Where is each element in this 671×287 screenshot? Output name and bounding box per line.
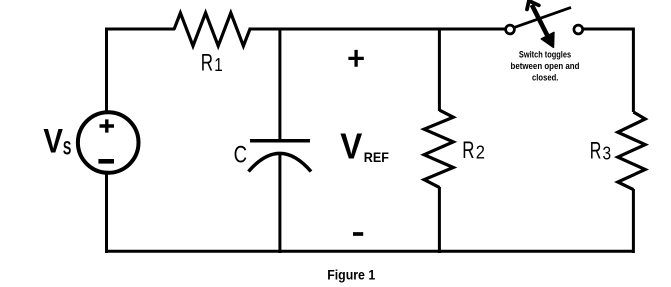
- wire: left vertical from VS negative terminal to bottom rail: [105, 172, 108, 253]
- switch toggle arrow shaft (double-headed): [532, 5, 551, 42]
- svg-text:Figure 1: Figure 1: [327, 266, 375, 282]
- svg-text:between open and: between open and: [511, 61, 580, 71]
- switch annotation text: [511, 50, 580, 83]
- resistor R2: [424, 110, 453, 187]
- label R3: [590, 138, 611, 165]
- VS polarity plus mark: [100, 119, 115, 132]
- svg-text:R: R: [201, 50, 213, 77]
- switch lever blade (open position): [514, 7, 571, 27]
- label R2: [462, 137, 485, 164]
- capacitor C top plate: [250, 139, 310, 143]
- switch right terminal (open circle): [574, 25, 583, 34]
- wire: bottom rail: [105, 250, 633, 253]
- svg-text:S: S: [63, 137, 71, 159]
- label R1: [201, 50, 223, 77]
- switch left terminal (open circle): [506, 25, 515, 34]
- wire: R2 branch upper (junction at top wire down to R2): [438, 29, 441, 111]
- voltage source VS (circle): [78, 112, 139, 173]
- svg-text:V: V: [340, 126, 363, 167]
- VS polarity minus mark: [98, 159, 114, 164]
- label VS: [43, 123, 71, 161]
- wire: top-left horizontal segment from left branch to resistor R1: [105, 28, 175, 31]
- switch toggle arrow head bottom: [541, 32, 554, 47]
- resistor R1: [174, 13, 250, 46]
- svg-text:R: R: [462, 137, 474, 164]
- label - (VREF negative polarity): [353, 232, 363, 236]
- wire: switch right terminal to top-right corner and down to R3: [583, 29, 634, 112]
- switch toggle arrow head top: [527, 1, 539, 10]
- wire: top middle horizontal from R1 through junctions to switch left terminal: [249, 28, 506, 31]
- resistor R3: [618, 112, 645, 190]
- svg-text:closed.: closed.: [532, 73, 558, 83]
- svg-text:C: C: [234, 141, 247, 168]
- svg-text:R: R: [590, 138, 602, 165]
- label + (VREF positive polarity): [348, 50, 363, 67]
- wire: capacitor branch upper (junction at top wire down to top plate): [278, 29, 281, 141]
- capacitor C curved bottom plate: [249, 153, 312, 171]
- label VREF: [340, 126, 389, 167]
- svg-text:REF: REF: [364, 149, 390, 165]
- wire: left vertical from top wire down to VS positive terminal: [105, 28, 108, 114]
- wire: R3 branch lower (R3 down to bottom rail): [632, 189, 635, 253]
- wire: R2 branch lower (R2 down to bottom rail): [438, 187, 441, 253]
- svg-text:Switch toggles: Switch toggles: [519, 50, 571, 60]
- svg-text:3: 3: [603, 142, 612, 163]
- svg-text:2: 2: [476, 142, 485, 163]
- svg-text:V: V: [43, 123, 63, 161]
- svg-text:1: 1: [214, 54, 223, 75]
- wire: capacitor branch lower (curved plate down to bottom rail): [278, 154, 281, 253]
